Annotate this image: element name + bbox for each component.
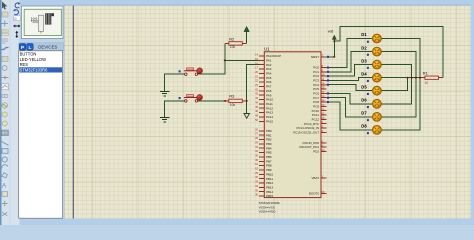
svg-text:D7: D7 (361, 111, 367, 116)
svg-text:PC15-OSC32_OUT: PC15-OSC32_OUT (293, 130, 319, 134)
svg-text:RES: RES (20, 62, 29, 67)
svg-text:D1: D1 (361, 32, 367, 37)
svg-text:DEVICES: DEVICES (38, 45, 57, 50)
svg-text:R3: R3 (229, 94, 234, 99)
svg-text:R1: R1 (423, 71, 428, 76)
svg-text:D5: D5 (361, 85, 367, 90)
svg-text:10k: 10k (230, 45, 236, 49)
svg-text:10k: 10k (230, 103, 236, 107)
svg-text:PD2: PD2 (313, 150, 319, 154)
svg-text:vdd: vdd (328, 30, 334, 34)
svg-text:D4: D4 (361, 72, 367, 77)
svg-text:L: L (29, 45, 32, 51)
svg-text:NRST: NRST (311, 55, 319, 59)
svg-text:D3: D3 (361, 58, 367, 63)
svg-text:BUTTON: BUTTON (20, 51, 37, 56)
svg-text:U1: U1 (264, 47, 270, 52)
svg-text:R2: R2 (229, 36, 234, 41)
svg-text:BOOT0: BOOT0 (309, 191, 319, 195)
svg-text:STM32F103R6: STM32F103R6 (20, 68, 48, 73)
svg-text:10: 10 (424, 81, 428, 85)
svg-text:D8: D8 (361, 124, 367, 129)
svg-text:LED-YELLOW: LED-YELLOW (20, 57, 47, 62)
svg-text:D2: D2 (361, 45, 367, 50)
svg-text:D6: D6 (361, 98, 367, 103)
svg-text:0: 0 (14, 17, 16, 21)
svg-text:VDDA=VDD: VDDA=VDD (259, 210, 277, 214)
svg-text:VBAT: VBAT (312, 176, 320, 180)
svg-text:PA15: PA15 (266, 119, 273, 123)
svg-text:PB15: PB15 (266, 194, 274, 198)
